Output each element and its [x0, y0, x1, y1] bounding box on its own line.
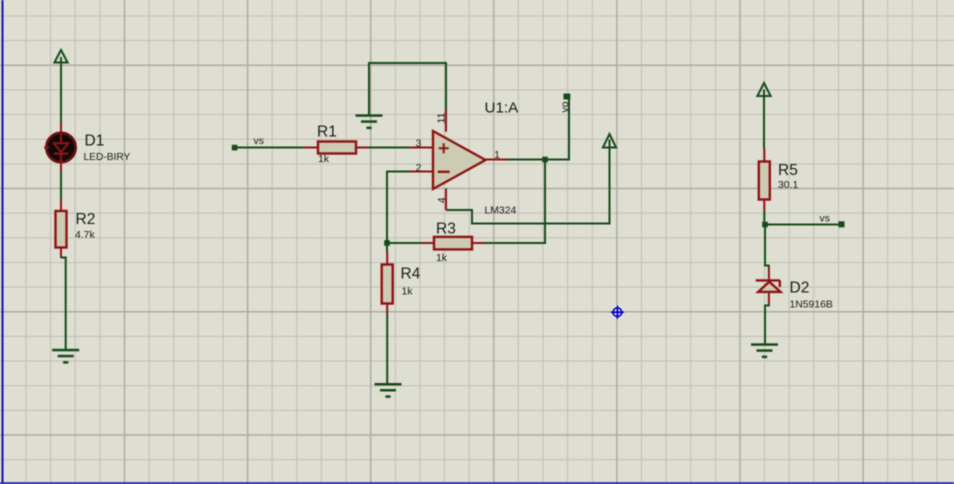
- U1 pin 11 stub: [445, 110, 447, 132]
- svg-text:1k: 1k: [318, 154, 330, 165]
- svg-text:1: 1: [494, 149, 500, 161]
- zener diode D2: [756, 268, 781, 304]
- output wire U1 pin 1 to vo: [507, 99, 569, 160]
- resistor R3: [422, 237, 484, 250]
- svg-text:vo: vo: [560, 101, 571, 112]
- value label 1N5916B: [790, 300, 833, 311]
- wire D2 to ground: [765, 304, 769, 344]
- pin number 1: [494, 149, 500, 161]
- U1 pin 1 stub: [486, 159, 508, 161]
- svg-text:LED-BIRY: LED-BIRY: [84, 152, 131, 163]
- wire node B to D2: [765, 227, 769, 269]
- pin number 11: [436, 112, 448, 123]
- ground GND1: [52, 349, 79, 364]
- svg-text:4: 4: [436, 197, 448, 203]
- svg-text:4.7k: 4.7k: [75, 230, 95, 241]
- junction node A: [384, 240, 390, 246]
- label R5: [778, 162, 798, 179]
- value label 1k (R3): [436, 253, 448, 264]
- junction output node: [542, 157, 548, 163]
- output terminal vs (right): [839, 221, 845, 227]
- power terminal VCC1: [54, 50, 67, 63]
- value label 1k (R1): [318, 154, 330, 165]
- U1 pin 2 stub: [409, 171, 433, 173]
- wire vs to R1: [237, 147, 305, 149]
- label R4: [401, 266, 421, 283]
- resistor R1: [304, 142, 368, 154]
- svg-text:vs: vs: [820, 214, 830, 225]
- label U1:A: [485, 99, 520, 116]
- svg-text:2: 2: [416, 162, 422, 174]
- svg-text:D2: D2: [790, 280, 810, 297]
- junction node B: [762, 222, 768, 228]
- svg-text:3: 3: [416, 138, 422, 150]
- wire R2 to ground: [61, 258, 66, 350]
- wire D1 to R2: [60, 172, 62, 201]
- wire node B to vs terminal: [765, 224, 839, 226]
- wire R1 to U1 pin 3: [368, 147, 409, 149]
- value label LED-BIRY: [84, 152, 131, 163]
- terminal vo: [564, 94, 571, 100]
- svg-text:1k: 1k: [436, 253, 448, 264]
- svg-text:R5: R5: [778, 162, 798, 179]
- svg-text:1N5916B: 1N5916B: [790, 300, 833, 311]
- input terminal vs: [232, 145, 238, 151]
- label vs (right): [820, 214, 830, 225]
- U1 pin 3 stub: [409, 147, 433, 149]
- ground GND4: [751, 343, 778, 358]
- svg-text:30.1: 30.1: [778, 180, 798, 191]
- resistor R5: [759, 149, 770, 212]
- pin number 3: [416, 138, 422, 150]
- label R1: [317, 124, 337, 141]
- pin number 2: [416, 162, 422, 174]
- U1 pin 4 stub: [445, 189, 447, 211]
- resistor R2: [56, 200, 67, 258]
- value label LM324: [485, 206, 517, 217]
- LED D1: [44, 123, 76, 173]
- svg-text:D1: D1: [85, 133, 105, 150]
- ground GND3: [375, 383, 402, 398]
- svg-text:U1:A: U1:A: [485, 99, 520, 116]
- label vo: [560, 101, 571, 112]
- label R2: [76, 211, 96, 228]
- power terminal VCC3: [757, 83, 770, 96]
- label D1: [85, 133, 105, 150]
- value label 30.1: [778, 180, 798, 191]
- svg-text:R2: R2: [76, 211, 96, 228]
- svg-text:vs: vs: [254, 136, 264, 147]
- wire node A to R4: [386, 245, 388, 253]
- svg-text:R4: R4: [401, 266, 421, 283]
- label vs (input): [254, 136, 264, 147]
- pin number 4: [436, 197, 448, 203]
- ground GND2: [356, 114, 383, 129]
- value label 1k (R4): [402, 287, 414, 298]
- wire R4 to ground: [386, 314, 388, 384]
- wire VCC3 to R5: [763, 90, 765, 149]
- ground-loop wire from U1 pin 11: [369, 63, 446, 115]
- wire R3 to node A: [389, 242, 422, 244]
- svg-text:R1: R1: [317, 124, 337, 141]
- wire R5 to node B: [763, 211, 765, 222]
- label R3: [436, 221, 456, 238]
- value label 4.7k: [75, 230, 95, 241]
- resistor R4: [382, 253, 393, 315]
- wire U1 pin 4 to VCC2: [446, 140, 610, 224]
- wire output node to R3: [484, 161, 545, 243]
- wire U1 pin 2 to node A: [387, 172, 409, 244]
- op-amp U1 LM324: [433, 131, 486, 189]
- label D2: [790, 280, 810, 297]
- svg-text:1k: 1k: [402, 287, 414, 298]
- origin marker: [611, 306, 624, 319]
- svg-text:LM324: LM324: [485, 206, 517, 217]
- wire VCC1 to D1: [60, 57, 62, 123]
- svg-text:11: 11: [436, 112, 448, 123]
- power terminal VCC2: [603, 134, 616, 148]
- svg-text:R3: R3: [436, 221, 456, 238]
